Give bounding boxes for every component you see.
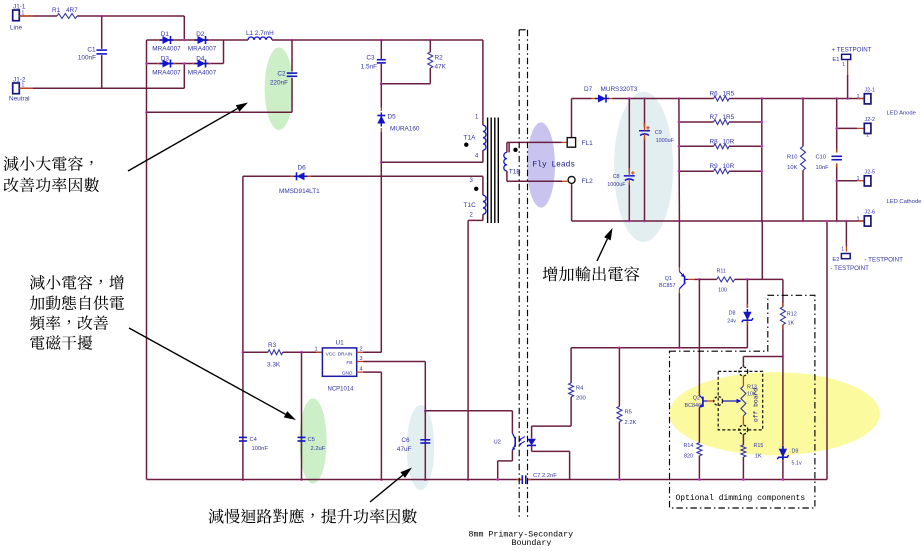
svg-text:D5: D5 (388, 114, 397, 121)
svg-text:C7 2.2nF: C7 2.2nF (533, 473, 557, 479)
svg-text:- TESTPOINT: - TESTPOINT (831, 265, 870, 272)
svg-text:Line: Line (10, 25, 23, 32)
svg-text:LED Cathode: LED Cathode (887, 199, 922, 205)
svg-text:E1: E1 (832, 57, 839, 63)
svg-text:R9: R9 (710, 163, 719, 170)
svg-text:U2: U2 (494, 440, 501, 446)
svg-text:8mm Primary-Secondary: 8mm Primary-Secondary (469, 530, 574, 540)
svg-text:R2: R2 (435, 55, 444, 62)
svg-text:10nF: 10nF (816, 165, 830, 171)
svg-text:100: 100 (718, 288, 727, 294)
svg-text:C3: C3 (366, 55, 375, 62)
svg-text:D8: D8 (729, 311, 736, 317)
svg-text:820: 820 (684, 454, 693, 460)
svg-text:1: 1 (22, 11, 25, 17)
svg-text:BC857: BC857 (659, 283, 675, 289)
svg-text:R4: R4 (576, 386, 584, 392)
svg-text:10K: 10K (787, 165, 797, 171)
svg-text:MURS320T3: MURS320T3 (601, 86, 638, 93)
svg-text:Neutral: Neutral (9, 96, 30, 103)
svg-text:FL2: FL2 (582, 178, 594, 185)
svg-text:1: 1 (314, 347, 317, 353)
svg-text:MRA4007: MRA4007 (152, 46, 181, 53)
svg-text:D9: D9 (792, 449, 799, 455)
svg-text:3: 3 (360, 356, 363, 362)
svg-text:MRA4007: MRA4007 (152, 70, 181, 77)
svg-text:R1: R1 (52, 7, 61, 14)
svg-text:D3: D3 (161, 55, 170, 62)
svg-text:D7: D7 (584, 86, 593, 93)
svg-text:R3: R3 (268, 342, 277, 349)
svg-text:220nF: 220nF (270, 80, 288, 87)
svg-text:1R5: 1R5 (723, 91, 735, 98)
svg-text:1: 1 (856, 94, 859, 100)
svg-text:1K: 1K (788, 321, 795, 327)
svg-text:Boundary: Boundary (512, 538, 552, 546)
svg-text:Q2: Q2 (693, 396, 700, 402)
svg-text:R6: R6 (710, 91, 719, 98)
svg-text:2.2uF: 2.2uF (311, 446, 326, 452)
svg-text:47K: 47K (435, 64, 447, 71)
svg-text:FL1: FL1 (582, 140, 594, 147)
svg-text:LED Anode: LED Anode (887, 111, 916, 117)
svg-text:R10: R10 (787, 155, 798, 161)
svg-text:- TESTPOINT: - TESTPOINT (865, 257, 904, 264)
svg-text:C5: C5 (308, 437, 315, 443)
svg-text:200: 200 (576, 396, 586, 402)
svg-text:MRA4007: MRA4007 (188, 70, 217, 77)
svg-text:D6: D6 (298, 165, 307, 172)
svg-text:J2-1: J2-1 (865, 88, 876, 94)
svg-text:R7: R7 (710, 114, 719, 121)
svg-text:R12: R12 (787, 312, 797, 318)
svg-text:Q1: Q1 (665, 276, 672, 282)
svg-text:5.1v: 5.1v (792, 461, 802, 467)
svg-text:J2-6: J2-6 (865, 210, 876, 216)
svg-text:1: 1 (841, 247, 844, 253)
svg-text:1: 1 (866, 133, 869, 139)
svg-text:C10: C10 (816, 155, 827, 161)
svg-text:DRAIN: DRAIN (338, 352, 353, 358)
svg-text:10R: 10R (723, 163, 735, 170)
svg-text:MURA160: MURA160 (390, 126, 420, 133)
svg-text:off board: off board (753, 388, 760, 422)
svg-text:T1B: T1B (509, 169, 521, 176)
svg-text:1: 1 (856, 217, 859, 223)
svg-text:100nF: 100nF (78, 55, 96, 62)
svg-text:R15: R15 (754, 443, 764, 449)
svg-text:1000uF: 1000uF (607, 182, 626, 188)
svg-text:1: 1 (856, 176, 859, 182)
svg-text:D4: D4 (196, 55, 205, 62)
svg-text:1K: 1K (755, 454, 762, 460)
svg-text:1000uF: 1000uF (656, 138, 675, 144)
svg-text:2: 2 (360, 347, 363, 353)
svg-text:MRA4007: MRA4007 (188, 46, 217, 53)
svg-text:C8: C8 (613, 174, 620, 180)
svg-text:E2: E2 (832, 257, 839, 263)
svg-text:J1-1: J1-1 (13, 4, 26, 11)
svg-text:J2-5: J2-5 (865, 170, 876, 176)
svg-text:1.5nF: 1.5nF (361, 64, 377, 71)
svg-text:T1A: T1A (464, 135, 477, 142)
svg-text:D2: D2 (196, 31, 205, 38)
svg-text:U1: U1 (336, 340, 345, 347)
svg-text:NCP1014: NCP1014 (328, 387, 355, 393)
svg-text:1: 1 (22, 83, 25, 89)
svg-text:C9: C9 (655, 130, 662, 136)
svg-text:R8: R8 (710, 138, 719, 145)
svg-text:GND: GND (342, 370, 353, 376)
svg-text:24v: 24v (727, 319, 736, 325)
svg-text:C2: C2 (277, 71, 286, 78)
svg-text:3.3K: 3.3K (267, 362, 281, 369)
svg-text:T1C: T1C (464, 202, 477, 209)
svg-text:VCC: VCC (326, 352, 337, 358)
svg-text:10R: 10R (723, 138, 735, 145)
svg-text:BC846: BC846 (685, 403, 701, 409)
svg-text:100nF: 100nF (252, 446, 269, 452)
svg-text:2.2K: 2.2K (625, 420, 637, 426)
svg-text:47uF: 47uF (397, 446, 412, 453)
svg-text:1R5: 1R5 (723, 114, 735, 121)
svg-text:Fly Leads: Fly Leads (533, 161, 576, 170)
svg-text:C4: C4 (250, 437, 258, 443)
svg-text:4: 4 (360, 367, 363, 373)
svg-text:C6: C6 (401, 437, 410, 444)
svg-text:4R7: 4R7 (66, 7, 78, 14)
svg-text:+ TESTPOINT: + TESTPOINT (832, 47, 872, 54)
svg-text:J2-2: J2-2 (865, 117, 876, 123)
svg-text:1: 1 (842, 62, 845, 68)
svg-text:FB: FB (346, 360, 352, 366)
svg-text:R14: R14 (684, 443, 694, 449)
svg-text:L1 2.7mH: L1 2.7mH (246, 30, 274, 37)
svg-text:D1: D1 (161, 31, 170, 38)
svg-text:C1: C1 (87, 47, 96, 54)
svg-text:Optional dimming components: Optional dimming components (676, 494, 806, 503)
svg-text:R11: R11 (717, 269, 727, 275)
svg-text:R5: R5 (625, 410, 632, 416)
svg-text:MMSD914LT1: MMSD914LT1 (279, 188, 320, 195)
